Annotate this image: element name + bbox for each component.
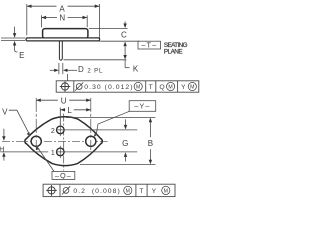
svg-text:G: G bbox=[122, 139, 128, 148]
svg-text:1: 1 bbox=[51, 150, 55, 157]
svg-text:B: B bbox=[148, 139, 153, 148]
svg-text:M: M bbox=[126, 189, 130, 195]
svg-text:M: M bbox=[190, 85, 194, 91]
svg-text:K: K bbox=[133, 65, 139, 74]
svg-text:T: T bbox=[149, 84, 153, 91]
svg-text:Q: Q bbox=[159, 84, 164, 91]
svg-text:L: L bbox=[67, 106, 72, 115]
svg-text:E: E bbox=[19, 51, 24, 60]
svg-text:M: M bbox=[136, 85, 140, 91]
svg-text:U: U bbox=[61, 96, 67, 105]
svg-text:Y: Y bbox=[181, 84, 186, 91]
svg-text:D: D bbox=[78, 65, 84, 74]
svg-text:–Y–: –Y– bbox=[134, 102, 150, 111]
svg-text:0.2 (0.008): 0.2 (0.008) bbox=[73, 188, 120, 195]
svg-text:PLANE: PLANE bbox=[164, 49, 182, 56]
svg-text:H: H bbox=[0, 146, 4, 153]
svg-text:0.30 (0.012): 0.30 (0.012) bbox=[84, 84, 133, 91]
svg-text:C: C bbox=[121, 30, 127, 39]
svg-text:–T–: –T– bbox=[141, 41, 157, 50]
svg-text:2 PL: 2 PL bbox=[87, 68, 103, 74]
svg-text:T: T bbox=[139, 188, 143, 195]
svg-text:A: A bbox=[59, 4, 65, 13]
svg-text:2: 2 bbox=[51, 128, 55, 135]
svg-text:Y: Y bbox=[152, 188, 157, 195]
svg-text:V: V bbox=[2, 108, 8, 117]
svg-text:N: N bbox=[59, 14, 65, 23]
svg-text:M: M bbox=[168, 85, 172, 91]
svg-text:–Q–: –Q– bbox=[55, 171, 72, 180]
svg-text:M: M bbox=[164, 189, 168, 195]
